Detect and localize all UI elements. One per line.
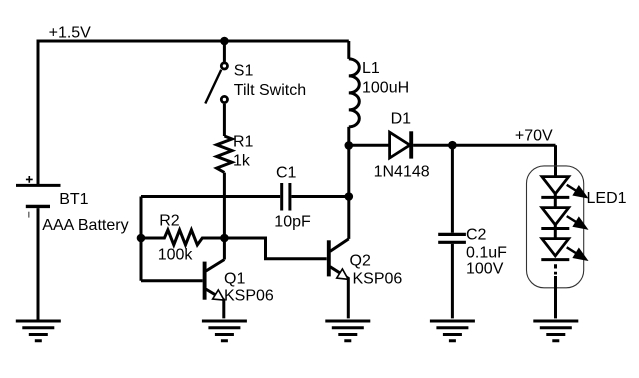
svg-text:S1: S1 — [234, 63, 254, 80]
svg-text:D1: D1 — [391, 110, 412, 127]
svg-text:10pF: 10pF — [274, 213, 311, 230]
svg-text:0.1uF: 0.1uF — [466, 244, 507, 261]
svg-text:L1: L1 — [362, 60, 380, 77]
svg-text:100k: 100k — [158, 246, 194, 263]
svg-text:1k: 1k — [233, 153, 251, 170]
svg-text:100uH: 100uH — [362, 80, 409, 97]
svg-text:KSP06: KSP06 — [224, 288, 274, 305]
svg-text:Q1: Q1 — [224, 270, 245, 287]
svg-text:Tilt Switch: Tilt Switch — [234, 82, 306, 99]
svg-text:+70V: +70V — [515, 128, 553, 145]
svg-text:C1: C1 — [276, 164, 297, 181]
svg-text:1N4148: 1N4148 — [374, 163, 430, 180]
svg-text:BT1: BT1 — [59, 191, 88, 208]
svg-text:R1: R1 — [233, 134, 254, 151]
svg-text:LED1: LED1 — [587, 190, 627, 207]
svg-text:KSP06: KSP06 — [353, 271, 403, 288]
svg-text:AAA Battery: AAA Battery — [42, 217, 128, 234]
svg-text:R2: R2 — [159, 212, 180, 229]
svg-text:Q2: Q2 — [350, 252, 371, 269]
svg-text:C2: C2 — [466, 226, 487, 243]
svg-text:100V: 100V — [466, 261, 504, 278]
svg-text:+1.5V: +1.5V — [49, 25, 92, 42]
